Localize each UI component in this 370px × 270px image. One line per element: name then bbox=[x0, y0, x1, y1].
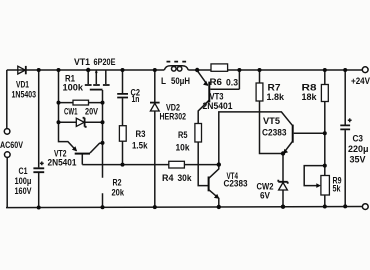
svg-text:R5: R5 bbox=[178, 130, 188, 141]
svg-text:220μ: 220μ bbox=[348, 144, 369, 155]
svg-text:2N5401: 2N5401 bbox=[203, 101, 234, 112]
svg-text:1.8k: 1.8k bbox=[267, 92, 285, 103]
svg-text:VT5: VT5 bbox=[263, 116, 281, 127]
svg-text:6P20E: 6P20E bbox=[94, 57, 116, 68]
svg-text:6V: 6V bbox=[260, 191, 271, 202]
svg-text:2N5401: 2N5401 bbox=[48, 157, 78, 168]
svg-text:CW1: CW1 bbox=[64, 107, 78, 118]
svg-text:100k: 100k bbox=[63, 83, 84, 94]
svg-text:18k: 18k bbox=[302, 92, 318, 103]
svg-text:50μH: 50μH bbox=[171, 76, 190, 87]
svg-text:R6: R6 bbox=[210, 77, 223, 88]
svg-text:C2383: C2383 bbox=[262, 128, 287, 139]
svg-text:VT1: VT1 bbox=[74, 57, 91, 68]
svg-text:30k: 30k bbox=[178, 173, 193, 184]
svg-text:1n: 1n bbox=[132, 94, 140, 105]
svg-text:AC60V: AC60V bbox=[0, 140, 23, 151]
svg-text:+24V: +24V bbox=[351, 76, 370, 87]
svg-text:1.5k: 1.5k bbox=[132, 141, 148, 152]
svg-text:20k: 20k bbox=[112, 188, 125, 199]
svg-text:10k: 10k bbox=[176, 143, 191, 154]
svg-text:C2383: C2383 bbox=[224, 179, 248, 190]
svg-text:160V: 160V bbox=[15, 186, 33, 197]
svg-text:L: L bbox=[161, 76, 166, 87]
svg-text:35V: 35V bbox=[350, 155, 367, 166]
svg-text:1N5403: 1N5403 bbox=[12, 90, 37, 101]
svg-text:R4: R4 bbox=[162, 173, 174, 184]
svg-text:20V: 20V bbox=[85, 107, 99, 118]
svg-text:5k: 5k bbox=[333, 184, 342, 195]
svg-text:C3: C3 bbox=[353, 134, 364, 145]
svg-text:HER302: HER302 bbox=[160, 112, 187, 123]
svg-text:R3: R3 bbox=[136, 129, 146, 140]
svg-text:0.3: 0.3 bbox=[226, 78, 238, 89]
